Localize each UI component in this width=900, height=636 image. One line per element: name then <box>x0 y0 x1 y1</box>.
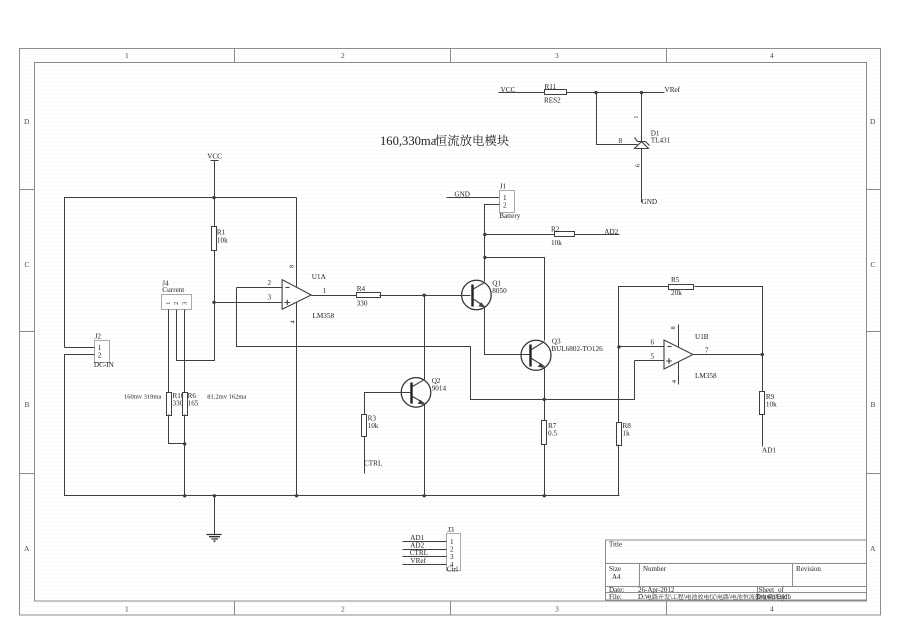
svg-text:2: 2 <box>268 279 272 287</box>
wire R6 bottom to rail <box>184 415 186 496</box>
U1B pin4 stub <box>678 362 680 385</box>
svg-text:6: 6 <box>651 339 655 347</box>
svg-text:2: 2 <box>98 351 102 359</box>
svg-text:Revision: Revision <box>796 565 821 573</box>
wire J3 pin3 <box>403 556 447 558</box>
svg-text:J1: J1 <box>500 183 507 191</box>
resistor R3 <box>362 415 367 437</box>
wire node to U1B pin5 riser <box>545 361 635 400</box>
resistor R2 <box>555 232 575 237</box>
svg-text:8: 8 <box>289 265 296 268</box>
svg-text:AD1: AD1 <box>762 447 776 455</box>
wire J4 pin1 to R10 <box>168 310 170 393</box>
resistor R5 <box>669 285 694 290</box>
svg-text:D:\: D:\ <box>638 593 647 601</box>
wire R8 to rail <box>618 445 620 496</box>
node junction on VRef wire <box>594 91 597 94</box>
svg-text:CTRL: CTRL <box>364 460 382 468</box>
op-amp U1A <box>282 280 311 310</box>
svg-text:1: 1 <box>633 116 640 119</box>
op-amp U1B <box>664 340 693 369</box>
svg-text:3: 3 <box>268 294 272 302</box>
wire R2 to AD2 <box>575 234 620 236</box>
svg-text:B: B <box>25 400 30 409</box>
svg-text:8: 8 <box>670 326 677 329</box>
wire R8 from pin6 node <box>618 347 620 423</box>
svg-text:R4: R4 <box>357 285 366 293</box>
wire R11 to VRef <box>567 92 665 94</box>
U1B pin8 stub <box>678 325 680 348</box>
svg-text:3: 3 <box>555 51 559 60</box>
wire R4 to Q1 base <box>380 295 471 297</box>
svg-text:5: 5 <box>651 353 655 361</box>
svg-text:J2: J2 <box>95 333 102 341</box>
wire J3 pin1 <box>403 541 447 543</box>
svg-text:C: C <box>25 260 30 269</box>
svg-text:File:: File: <box>609 593 622 601</box>
transistor Q2 <box>401 378 431 408</box>
title block <box>606 540 867 601</box>
svg-text:B: B <box>871 400 876 409</box>
svg-text:VRef: VRef <box>410 557 426 565</box>
svg-text:0.5: 0.5 <box>548 429 557 437</box>
svg-text:Ctrl: Ctrl <box>447 566 458 574</box>
ground symbol <box>207 496 222 542</box>
wire R5 right to output node <box>695 287 763 355</box>
svg-text:C: C <box>871 260 876 269</box>
svg-text:4: 4 <box>770 605 774 614</box>
svg-text:J3: J3 <box>448 526 455 534</box>
wire R10 bottom to R6 <box>169 415 185 444</box>
svg-text:VRef: VRef <box>665 86 681 94</box>
svg-text:DC-IN: DC-IN <box>94 361 115 369</box>
wire R1 to U1A pin3 <box>215 302 283 304</box>
svg-text:2: 2 <box>173 302 180 305</box>
inner frame <box>35 63 867 602</box>
wire U1B pin5 <box>635 360 665 362</box>
wire Q2 base to R3 <box>365 393 411 415</box>
resistor R8 <box>617 423 622 446</box>
wire to TL431 pin 8 <box>597 93 638 145</box>
wire TL431 pin 1 <box>641 93 643 142</box>
frame column ticks <box>235 49 667 615</box>
svg-text:1k: 1k <box>623 429 631 437</box>
svg-text:20k: 20k <box>671 289 682 297</box>
svg-text:4: 4 <box>770 51 774 60</box>
svg-text:LM358: LM358 <box>695 372 717 380</box>
svg-text:Drawn By:: Drawn By: <box>756 593 787 601</box>
connector J1 <box>500 191 515 213</box>
wire R9 to AD1 <box>762 415 764 447</box>
svg-text:\: \ <box>684 593 686 601</box>
svg-text:AD2: AD2 <box>604 228 618 236</box>
svg-text:165: 165 <box>188 399 199 407</box>
wire TL431 pin 6 to GND <box>641 149 643 203</box>
svg-text:U1A: U1A <box>312 273 327 281</box>
wire U1A pin2 <box>237 287 283 289</box>
svg-text:1: 1 <box>125 605 129 614</box>
svg-text:81.2mv 162ma: 81.2mv 162ma <box>207 394 246 401</box>
svg-text:8: 8 <box>619 137 623 145</box>
svg-text:10k: 10k <box>766 401 777 409</box>
frame row ticks <box>20 190 881 474</box>
wire VCC to R11 <box>499 92 545 94</box>
svg-text:Size: Size <box>609 565 621 573</box>
svg-text:A: A <box>870 544 876 553</box>
svg-text:A: A <box>24 544 30 553</box>
wire U1A pin8 <box>296 198 298 288</box>
wire Q3 emitter to node <box>544 369 546 400</box>
wire J3 pin4 <box>403 564 447 566</box>
svg-text:TL431: TL431 <box>651 137 671 145</box>
svg-text:2: 2 <box>503 201 507 209</box>
svg-text:BUL6802-TO126: BUL6802-TO126 <box>551 345 603 353</box>
resistor R1 <box>214 198 216 303</box>
svg-text:D: D <box>24 117 30 126</box>
wire J3 pin2 <box>403 549 447 551</box>
wire GND to J1 pin1 <box>447 197 500 199</box>
wire pin2 feedback to ground rail <box>237 288 545 400</box>
svg-text:8050: 8050 <box>492 287 507 295</box>
svg-text:D: D <box>870 117 876 126</box>
wire J4 pin2 to R1 node <box>177 303 215 361</box>
svg-text:10k: 10k <box>368 422 379 430</box>
wire Q1 base node down to Q2 collector <box>424 296 426 380</box>
svg-text:Battery: Battery <box>499 212 521 220</box>
resistor R11 <box>545 90 567 95</box>
svg-text:1: 1 <box>323 287 327 295</box>
svg-text:10k: 10k <box>551 239 562 247</box>
wire R7 to rail <box>544 445 546 496</box>
wire J1 pin2 down to Q1 collector <box>485 205 500 282</box>
resistor R10 <box>167 393 172 416</box>
svg-text:3: 3 <box>181 302 188 305</box>
rail junction dots <box>183 494 186 497</box>
diode D1 TL431 <box>635 138 650 149</box>
svg-text:GND: GND <box>642 198 658 206</box>
svg-text:LM358: LM358 <box>313 312 335 320</box>
svg-text:9014: 9014 <box>432 384 447 392</box>
svg-text:Number: Number <box>643 565 667 573</box>
wire J2 pin1 <box>65 347 95 349</box>
wire node to R2 <box>485 234 555 236</box>
svg-text:1: 1 <box>125 51 129 60</box>
svg-text:1: 1 <box>165 302 172 305</box>
wire U1A output pin1 <box>312 295 357 297</box>
transistor Q3 <box>521 340 551 370</box>
svg-text:R11: R11 <box>545 83 557 91</box>
wire node to Q3 collector <box>485 258 545 341</box>
transistor Q1 <box>462 280 492 310</box>
svg-text:VCC: VCC <box>207 153 222 161</box>
wire Q1 emitter to Q3 base <box>485 307 530 355</box>
svg-text:RES2: RES2 <box>544 96 561 104</box>
svg-text:\: \ <box>729 593 731 601</box>
svg-text:2: 2 <box>341 51 345 60</box>
svg-text:Title: Title <box>609 541 622 549</box>
svg-text:R5: R5 <box>671 276 680 284</box>
wire R3 to CTRL <box>364 437 366 474</box>
resistor R4 <box>357 293 381 298</box>
svg-text:\: \ <box>715 593 717 601</box>
svg-text:A4: A4 <box>612 573 621 581</box>
svg-text:10k: 10k <box>217 237 228 245</box>
svg-text:U1B: U1B <box>695 333 709 341</box>
resistor R7 <box>544 400 546 421</box>
wire R5 loop left <box>619 287 669 347</box>
wire J4 pin3 to R6 <box>184 310 186 393</box>
wire U1B output pin7 <box>693 354 763 356</box>
svg-text:\: \ <box>670 593 672 601</box>
wire U1B pin6 <box>619 346 665 348</box>
wire top loop <box>65 198 297 348</box>
wire Q2 emitter to rail <box>424 405 426 496</box>
wire J2 pin2 to ground rail <box>65 355 620 496</box>
VCC bar symbol <box>211 161 219 198</box>
svg-text:7: 7 <box>705 347 709 355</box>
svg-text:2: 2 <box>341 605 345 614</box>
wire U1A pin4 down to rail <box>296 303 298 496</box>
svg-text:R1: R1 <box>217 229 226 237</box>
resistor R9 <box>762 355 764 392</box>
svg-text:R2: R2 <box>551 226 560 234</box>
svg-text:160,330ma: 160,330ma <box>380 134 437 148</box>
svg-text:3: 3 <box>555 605 559 614</box>
resistor R6 <box>183 393 188 416</box>
svg-text:330: 330 <box>357 300 368 308</box>
svg-text:160mv 319ma: 160mv 319ma <box>124 394 161 401</box>
svg-text:Current: Current <box>162 286 184 294</box>
